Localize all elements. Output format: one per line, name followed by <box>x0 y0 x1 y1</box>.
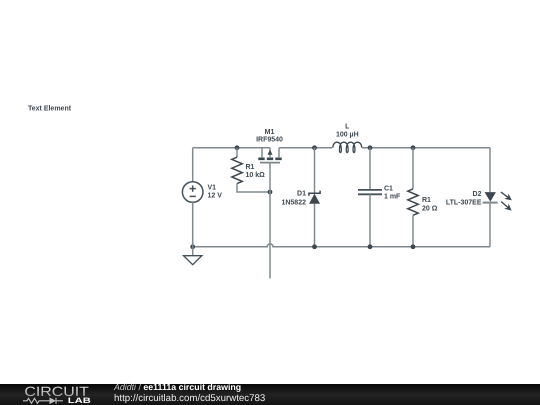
diode D1 1N5822 (schottky) <box>309 148 320 247</box>
node: junction C1 bottom <box>368 244 373 249</box>
node: junction ground <box>190 244 195 249</box>
resistor R1 10 kOhm <box>232 157 242 183</box>
svg-text:M1: M1 <box>265 129 275 136</box>
svg-text:10 kΩ: 10 kΩ <box>246 172 266 179</box>
svg-text:D2: D2 <box>473 191 482 198</box>
resistor R1 20 Ohm <box>408 148 418 247</box>
wire: R1 top lead <box>236 148 238 157</box>
svg-text:R1: R1 <box>422 197 431 204</box>
inductor L 100uH <box>333 142 362 152</box>
svg-text:V1: V1 <box>208 184 217 191</box>
svg-text:http://circuitlab.com/cd5xurwt: http://circuitlab.com/cd5xurwtec783 <box>114 393 265 404</box>
capacitor C1 1mF <box>358 148 382 247</box>
svg-text:12 V: 12 V <box>208 193 223 200</box>
ground <box>184 247 202 265</box>
wire: R1 bottom lead to gate node <box>237 184 270 192</box>
footer bar <box>0 384 540 405</box>
svg-text:Adidti / ee1111a circuit drawi: Adidti / ee1111a circuit drawing <box>113 382 241 392</box>
svg-text:L: L <box>345 124 350 131</box>
svg-text:1 mF: 1 mF <box>384 193 401 200</box>
svg-text:1N5822: 1N5822 <box>281 200 306 207</box>
wire: V1 bottom lead <box>192 202 194 246</box>
wire: M1 gate lead going down (dangling below ground rail) <box>269 163 271 279</box>
LED D2 LTL-307EE <box>483 189 514 246</box>
wire: top rail from V1 corner to M1 source <box>193 147 270 149</box>
svg-text:R1: R1 <box>246 164 255 171</box>
svg-text:20 Ω: 20 Ω <box>422 206 438 213</box>
node: junction R1 top on top rail <box>235 145 240 150</box>
node: junction D1 bottom <box>312 244 317 249</box>
voltage source V1 12V <box>182 182 203 203</box>
svg-text:LAB: LAB <box>68 396 92 405</box>
node: junction D1 top <box>312 145 317 150</box>
wire: right branch down to LED <box>489 148 491 192</box>
wire: V1 top lead up to top rail <box>192 148 194 182</box>
svg-text:IRF9540: IRF9540 <box>256 137 283 144</box>
node: junction R1(20) top <box>411 145 416 150</box>
wire: top rail inductor to right corner <box>362 147 490 149</box>
svg-text:Text Element: Text Element <box>28 105 72 112</box>
svg-text:100 µH: 100 µH <box>336 131 359 138</box>
svg-text:C1: C1 <box>384 186 393 193</box>
transistor M1 IRF9540 (PMOS) <box>258 148 281 163</box>
svg-text:LTL-307EE: LTL-307EE <box>446 200 482 207</box>
node: junction R1(20) bottom <box>411 244 416 249</box>
wire: top rail M1 drain to inductor <box>279 147 332 149</box>
svg-text:D1: D1 <box>297 190 306 197</box>
wire: bottom ground rail with hop over gate lead <box>193 244 490 247</box>
node: junction C1 top <box>368 145 373 150</box>
node: junction R1 bottom / M1 gate <box>268 190 273 195</box>
CircuitLab logo <box>0 375 540 405</box>
